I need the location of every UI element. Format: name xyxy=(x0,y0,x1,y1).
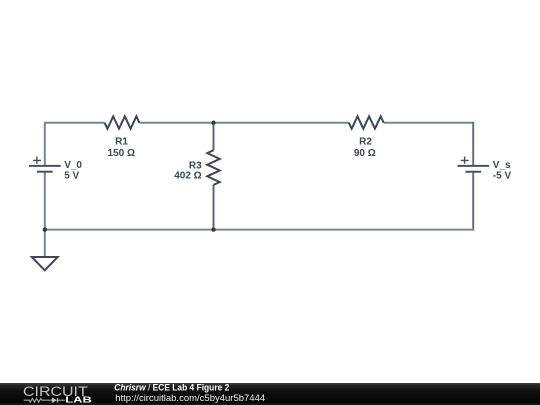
wire top horizontal middle segment xyxy=(139,122,348,124)
plus sign V_s xyxy=(461,157,469,164)
battery V_0 plates xyxy=(29,166,61,172)
svg-text:http://circuitlab.com/c5by4ur5: http://circuitlab.com/c5by4ur5b7444 xyxy=(115,393,265,404)
battery V_s plates xyxy=(457,166,489,172)
resistor R1 xyxy=(105,116,140,128)
resistor R3 xyxy=(207,150,219,185)
wire ground stub xyxy=(44,230,46,257)
node junction dot ground xyxy=(43,227,47,231)
wire R3 vertical upper lead xyxy=(213,123,215,151)
logo diode xyxy=(52,397,57,403)
svg-text:R1: R1 xyxy=(115,137,128,148)
node junction dot bottom xyxy=(211,227,215,231)
wire bottom horizontal xyxy=(45,229,473,231)
wire top horizontal left segment xyxy=(45,122,105,124)
wire left vertical upper xyxy=(44,122,46,166)
svg-text:-5 V: -5 V xyxy=(493,170,512,181)
node junction dot top xyxy=(211,121,215,125)
svg-text:402 Ω: 402 Ω xyxy=(174,171,201,182)
svg-text:LAB: LAB xyxy=(65,396,92,405)
wire left vertical lower xyxy=(44,172,46,231)
wire top horizontal right segment xyxy=(384,122,474,124)
logo resistor zigzag xyxy=(24,398,52,402)
wire right vertical upper xyxy=(472,122,474,166)
wire right vertical lower xyxy=(472,172,474,231)
wire R3 vertical lower lead xyxy=(213,185,215,230)
svg-text:150 Ω: 150 Ω xyxy=(108,148,135,159)
resistor R2 xyxy=(349,116,384,128)
svg-text:5 V: 5 V xyxy=(64,170,79,181)
svg-text:R2: R2 xyxy=(359,137,372,148)
plus sign V_0 xyxy=(33,157,41,164)
svg-text:Chrisrw / ECE Lab 4 Figure 2: Chrisrw / ECE Lab 4 Figure 2 xyxy=(114,383,229,393)
footer bar xyxy=(0,383,540,405)
ground triangle xyxy=(32,257,58,270)
logo wire after diode xyxy=(58,399,65,401)
svg-text:90 Ω: 90 Ω xyxy=(354,148,376,159)
